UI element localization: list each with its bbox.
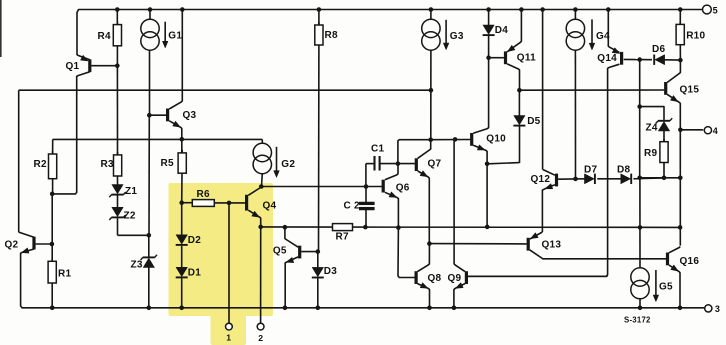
- svg-text:G3: G3: [450, 31, 464, 42]
- svg-text:Q11: Q11: [517, 52, 536, 63]
- svg-text:D3: D3: [324, 266, 337, 277]
- svg-text:G4: G4: [596, 31, 610, 42]
- svg-text:D8: D8: [617, 164, 630, 175]
- svg-text:1: 1: [226, 333, 231, 343]
- svg-text:3: 3: [715, 304, 720, 314]
- svg-text:D6: D6: [652, 44, 665, 55]
- svg-text:Q7: Q7: [428, 158, 442, 169]
- svg-text:Q6: Q6: [396, 183, 410, 194]
- svg-text:Q10: Q10: [486, 134, 506, 145]
- svg-text:Q14: Q14: [597, 53, 617, 64]
- svg-text:Q4: Q4: [263, 200, 277, 211]
- svg-text:Z1: Z1: [125, 186, 137, 197]
- svg-text:R5: R5: [161, 158, 174, 169]
- svg-text:Q13: Q13: [542, 240, 562, 251]
- svg-text:D7: D7: [584, 164, 597, 175]
- svg-text:R6: R6: [197, 189, 210, 200]
- svg-text:Q3: Q3: [183, 110, 197, 121]
- svg-text:D5: D5: [527, 116, 540, 127]
- svg-text:G1: G1: [168, 30, 182, 41]
- svg-text:Z4: Z4: [646, 122, 658, 133]
- svg-text:D4: D4: [495, 25, 508, 36]
- svg-text:Q9: Q9: [448, 273, 462, 284]
- svg-text:Z2: Z2: [124, 211, 136, 222]
- svg-text:C 2: C 2: [344, 201, 361, 212]
- svg-text:R10: R10: [686, 30, 705, 41]
- svg-text:D1: D1: [188, 267, 201, 278]
- svg-text:C1: C1: [371, 144, 384, 155]
- svg-text:Q2: Q2: [5, 239, 19, 250]
- svg-text:R9: R9: [644, 148, 657, 159]
- svg-text:G5: G5: [659, 281, 673, 292]
- svg-text:G2: G2: [281, 159, 295, 170]
- svg-text:Q5: Q5: [273, 245, 287, 256]
- svg-text:Q12: Q12: [531, 174, 551, 185]
- svg-text:R4: R4: [98, 31, 111, 42]
- svg-text:Q15: Q15: [680, 85, 700, 96]
- svg-text:R1: R1: [58, 269, 71, 280]
- svg-text:Q1: Q1: [66, 61, 80, 72]
- svg-text:Z3: Z3: [131, 259, 143, 270]
- svg-text:Q16: Q16: [680, 256, 700, 267]
- svg-text:R3: R3: [101, 159, 114, 170]
- svg-text:2: 2: [258, 333, 263, 343]
- svg-text:4: 4: [713, 126, 718, 136]
- svg-text:D2: D2: [188, 235, 201, 246]
- svg-text:5: 5: [713, 6, 718, 16]
- svg-text:Q8: Q8: [428, 273, 442, 284]
- svg-text:S-3172: S-3172: [624, 316, 651, 325]
- svg-text:R2: R2: [34, 159, 47, 170]
- svg-text:R8: R8: [325, 30, 338, 41]
- svg-text:R7: R7: [336, 232, 349, 243]
